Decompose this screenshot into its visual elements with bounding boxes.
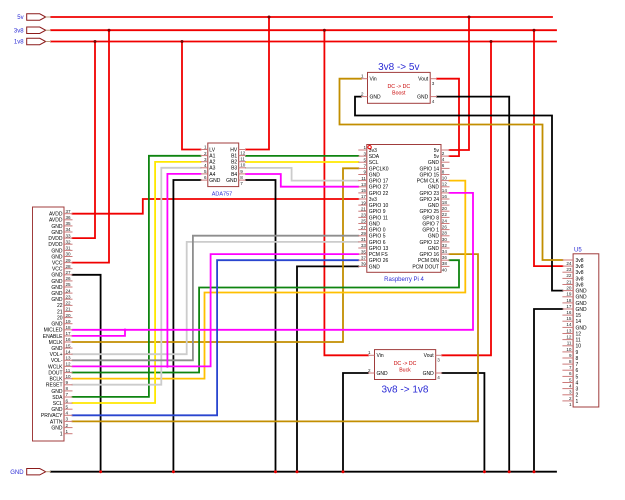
svg-text:GPIO 27: GPIO 27 — [369, 185, 389, 191]
svg-text:PCM FS: PCM FS — [369, 252, 389, 258]
svg-text:GND: GND — [428, 160, 440, 166]
svg-text:4: 4 — [432, 99, 435, 104]
svg-text:34: 34 — [66, 227, 72, 232]
svg-text:23: 23 — [566, 267, 572, 272]
svg-text:GND: GND — [51, 297, 63, 303]
svg-text:RESET: RESET — [46, 383, 63, 389]
svg-text:GND: GND — [51, 279, 63, 285]
svg-text:MCLK: MCLK — [49, 340, 64, 346]
svg-text:1: 1 — [569, 402, 572, 407]
svg-text:SDA: SDA — [52, 395, 63, 401]
svg-text:DC -> DC: DC -> DC — [394, 361, 417, 367]
svg-text:6: 6 — [569, 371, 572, 376]
svg-text:19: 19 — [566, 292, 572, 297]
svg-text:14: 14 — [442, 188, 448, 193]
svg-text:2: 2 — [204, 151, 207, 156]
svg-text:PCM CLK: PCM CLK — [417, 179, 440, 185]
svg-text:22: 22 — [566, 273, 572, 278]
svg-text:GPIO 15: GPIO 15 — [420, 172, 440, 178]
svg-text:GPIO 25: GPIO 25 — [420, 209, 440, 215]
svg-text:SDA: SDA — [369, 154, 380, 160]
svg-text:GND: GND — [423, 371, 435, 377]
svg-text:31: 31 — [66, 246, 72, 251]
svg-text:GND: GND — [369, 172, 381, 178]
svg-text:GND: GND — [428, 246, 440, 252]
svg-text:Vout: Vout — [424, 353, 435, 359]
svg-text:GPIO 10: GPIO 10 — [369, 203, 389, 209]
svg-text:GND: GND — [51, 291, 63, 297]
svg-text:1: 1 — [363, 145, 366, 150]
svg-text:6: 6 — [576, 368, 579, 374]
svg-text:14: 14 — [66, 349, 72, 354]
svg-text:20: 20 — [566, 286, 572, 291]
svg-text:U5: U5 — [574, 248, 582, 254]
svg-text:10: 10 — [66, 374, 72, 379]
svg-text:8: 8 — [576, 356, 579, 362]
svg-text:6: 6 — [442, 163, 445, 168]
svg-text:4: 4 — [204, 163, 207, 168]
svg-text:29: 29 — [66, 258, 72, 263]
svg-text:3v8 -> 1v8: 3v8 -> 1v8 — [382, 384, 429, 395]
svg-text:24: 24 — [66, 288, 72, 293]
svg-text:12: 12 — [240, 151, 246, 156]
svg-text:5v: 5v — [17, 15, 23, 21]
svg-text:GND: GND — [51, 322, 63, 328]
svg-text:11: 11 — [66, 368, 71, 373]
svg-text:5: 5 — [576, 374, 579, 380]
svg-text:Vout: Vout — [418, 77, 429, 83]
svg-text:A3: A3 — [209, 166, 215, 172]
svg-text:14: 14 — [576, 319, 582, 325]
svg-text:GPIO 16: GPIO 16 — [420, 252, 440, 258]
svg-text:3v8 -> 5v: 3v8 -> 5v — [378, 62, 419, 73]
svg-text:18: 18 — [442, 200, 448, 205]
svg-text:3v8: 3v8 — [576, 282, 584, 288]
svg-text:GPCLK0: GPCLK0 — [369, 166, 389, 172]
svg-text:5: 5 — [204, 169, 207, 174]
svg-text:14: 14 — [566, 322, 572, 327]
svg-text:7: 7 — [240, 181, 243, 186]
svg-text:20: 20 — [57, 316, 63, 322]
svg-text:9: 9 — [240, 169, 243, 174]
svg-text:27: 27 — [361, 225, 367, 230]
svg-text:8: 8 — [240, 175, 243, 180]
svg-text:19: 19 — [361, 200, 367, 205]
svg-text:Raspberry Pi 4: Raspberry Pi 4 — [384, 277, 424, 283]
svg-text:GPIO 12: GPIO 12 — [420, 240, 440, 246]
svg-text:VCC: VCC — [52, 261, 63, 267]
svg-text:36: 36 — [66, 215, 72, 220]
svg-text:3v3: 3v3 — [369, 197, 377, 203]
svg-text:11: 11 — [576, 338, 581, 344]
svg-text:25: 25 — [66, 282, 72, 287]
svg-text:17: 17 — [66, 331, 72, 336]
svg-text:3: 3 — [363, 151, 366, 156]
svg-text:GND: GND — [417, 95, 429, 101]
svg-text:13: 13 — [66, 356, 72, 361]
svg-text:1: 1 — [368, 350, 371, 355]
svg-text:6: 6 — [204, 175, 207, 180]
svg-text:ADA757: ADA757 — [212, 192, 233, 198]
svg-text:2: 2 — [569, 396, 572, 401]
svg-text:18: 18 — [66, 325, 72, 330]
svg-text:4: 4 — [576, 380, 579, 386]
svg-text:11: 11 — [361, 176, 366, 181]
svg-text:GND: GND — [576, 307, 588, 313]
svg-text:15: 15 — [566, 316, 572, 321]
svg-text:ENABLE: ENABLE — [43, 334, 63, 340]
svg-text:WCLK: WCLK — [48, 364, 63, 370]
svg-text:VOL+: VOL+ — [50, 352, 63, 358]
svg-text:18: 18 — [566, 298, 572, 303]
svg-text:VOL-: VOL- — [51, 358, 63, 364]
svg-text:GPIO 14: GPIO 14 — [420, 166, 440, 172]
svg-text:33: 33 — [66, 233, 72, 238]
svg-text:GND: GND — [377, 371, 389, 377]
svg-text:Boost: Boost — [392, 90, 406, 96]
svg-text:1: 1 — [576, 399, 579, 405]
svg-text:26: 26 — [66, 276, 72, 281]
svg-text:2: 2 — [361, 91, 364, 96]
svg-text:GPIO 11: GPIO 11 — [369, 215, 388, 221]
svg-text:HV: HV — [230, 147, 238, 153]
svg-text:12: 12 — [442, 182, 448, 187]
svg-text:3v8: 3v8 — [576, 276, 584, 282]
svg-text:GND: GND — [51, 248, 63, 254]
svg-text:ATTN: ATTN — [50, 419, 63, 425]
svg-text:DC -> DC: DC -> DC — [387, 84, 410, 90]
svg-text:6: 6 — [66, 398, 69, 403]
svg-text:1: 1 — [60, 432, 63, 438]
svg-text:GND: GND — [576, 289, 588, 295]
svg-text:17: 17 — [566, 304, 572, 309]
svg-text:DVDD: DVDD — [48, 242, 63, 248]
svg-text:21: 21 — [566, 279, 572, 284]
svg-text:3: 3 — [204, 157, 207, 162]
svg-text:21: 21 — [57, 309, 63, 315]
svg-text:B4: B4 — [231, 172, 237, 178]
svg-text:37: 37 — [66, 209, 72, 214]
svg-text:GND: GND — [428, 185, 440, 191]
svg-text:34: 34 — [442, 249, 448, 254]
svg-text:29: 29 — [361, 231, 367, 236]
svg-text:28: 28 — [442, 231, 448, 236]
svg-text:GND: GND — [51, 273, 63, 279]
svg-text:GND: GND — [576, 301, 588, 307]
svg-text:2: 2 — [66, 423, 69, 428]
svg-text:8: 8 — [442, 169, 445, 174]
svg-text:Vin: Vin — [370, 77, 377, 83]
svg-text:GND: GND — [51, 230, 63, 236]
svg-text:3: 3 — [569, 390, 572, 395]
svg-text:9: 9 — [66, 380, 69, 385]
svg-text:3: 3 — [432, 81, 435, 86]
svg-text:22: 22 — [57, 303, 63, 309]
svg-text:37: 37 — [361, 255, 367, 260]
svg-text:15: 15 — [576, 313, 582, 319]
svg-text:5: 5 — [66, 404, 69, 409]
svg-text:32: 32 — [66, 239, 72, 244]
svg-text:3: 3 — [437, 358, 440, 363]
svg-text:32: 32 — [442, 243, 448, 248]
svg-text:12: 12 — [66, 362, 72, 367]
svg-text:24: 24 — [566, 261, 572, 266]
svg-text:3: 3 — [66, 417, 69, 422]
svg-text:30: 30 — [442, 237, 448, 242]
svg-text:GPIO 8: GPIO 8 — [422, 215, 439, 221]
svg-text:7: 7 — [363, 164, 366, 169]
svg-text:VCC: VCC — [52, 267, 63, 273]
svg-text:GPIO 13: GPIO 13 — [369, 246, 389, 252]
svg-text:7: 7 — [569, 365, 572, 370]
svg-text:7: 7 — [66, 392, 69, 397]
svg-text:PRIVACY: PRIVACY — [41, 413, 63, 419]
svg-text:33: 33 — [361, 243, 367, 248]
svg-text:GPIO 5: GPIO 5 — [369, 234, 386, 240]
svg-text:GND: GND — [369, 221, 381, 227]
svg-text:3v8: 3v8 — [576, 264, 584, 270]
svg-text:GND: GND — [51, 346, 63, 352]
svg-text:28: 28 — [66, 264, 72, 269]
svg-text:SCL: SCL — [53, 401, 63, 407]
svg-text:PCM DOUT: PCM DOUT — [412, 264, 439, 270]
svg-text:11: 11 — [567, 341, 572, 346]
svg-text:A4: A4 — [209, 172, 215, 178]
svg-text:AVDD: AVDD — [49, 218, 63, 224]
svg-text:9: 9 — [576, 350, 579, 356]
svg-text:5v: 5v — [434, 154, 440, 160]
svg-text:GND: GND — [51, 285, 63, 291]
svg-text:GPIO 17: GPIO 17 — [369, 179, 389, 185]
svg-text:17: 17 — [361, 194, 367, 199]
svg-text:4: 4 — [66, 411, 69, 416]
svg-text:1: 1 — [204, 145, 207, 150]
svg-text:22: 22 — [442, 212, 448, 217]
svg-text:3v8: 3v8 — [576, 270, 584, 276]
svg-text:DOUT: DOUT — [48, 371, 62, 377]
svg-text:5v: 5v — [434, 148, 440, 154]
svg-text:7: 7 — [576, 362, 579, 368]
svg-text:30: 30 — [66, 252, 72, 257]
svg-text:1v8: 1v8 — [14, 40, 24, 46]
svg-text:2: 2 — [368, 368, 371, 373]
svg-text:LV: LV — [209, 147, 215, 153]
svg-text:2: 2 — [576, 393, 579, 399]
svg-text:A2: A2 — [209, 160, 215, 166]
svg-text:16: 16 — [442, 194, 448, 199]
svg-text:SCL: SCL — [369, 160, 379, 166]
svg-text:GND: GND — [428, 203, 440, 209]
svg-text:10: 10 — [442, 176, 448, 181]
svg-text:3v8: 3v8 — [576, 258, 584, 264]
svg-text:1: 1 — [361, 74, 364, 79]
svg-text:31: 31 — [361, 237, 367, 242]
svg-text:GND: GND — [51, 407, 63, 413]
svg-text:15: 15 — [361, 188, 367, 193]
svg-text:24: 24 — [442, 218, 448, 223]
svg-text:GPIO 1: GPIO 1 — [422, 228, 439, 234]
svg-text:3v8: 3v8 — [14, 28, 24, 34]
svg-text:22: 22 — [66, 301, 72, 306]
svg-text:GND: GND — [51, 224, 63, 230]
svg-text:15: 15 — [66, 343, 72, 348]
svg-text:23: 23 — [361, 213, 367, 218]
svg-text:8: 8 — [569, 359, 572, 364]
svg-text:11: 11 — [240, 157, 245, 162]
svg-text:GPIO 0: GPIO 0 — [369, 228, 386, 234]
svg-text:26: 26 — [442, 225, 448, 230]
svg-text:GND: GND — [51, 389, 63, 395]
svg-text:1: 1 — [66, 429, 69, 434]
svg-text:20: 20 — [66, 313, 72, 318]
svg-text:39: 39 — [361, 262, 367, 267]
svg-text:40: 40 — [442, 267, 448, 272]
svg-text:4: 4 — [437, 375, 440, 380]
svg-text:13: 13 — [361, 182, 367, 187]
svg-text:B3: B3 — [231, 166, 237, 172]
svg-text:35: 35 — [361, 249, 367, 254]
svg-text:9: 9 — [363, 170, 366, 175]
svg-text:GND: GND — [10, 470, 24, 476]
svg-text:GPIO 23: GPIO 23 — [420, 191, 440, 197]
svg-text:GND: GND — [576, 295, 588, 301]
svg-text:GPIO 26: GPIO 26 — [369, 258, 389, 264]
svg-text:GPIO 9: GPIO 9 — [369, 209, 386, 215]
svg-text:5: 5 — [363, 157, 366, 162]
svg-text:GPIO 24: GPIO 24 — [420, 197, 440, 203]
svg-text:10: 10 — [576, 344, 582, 350]
svg-text:GPIO 7: GPIO 7 — [422, 221, 439, 227]
svg-text:AVDD: AVDD — [49, 212, 63, 218]
svg-text:10: 10 — [566, 347, 572, 352]
svg-text:10: 10 — [240, 163, 246, 168]
svg-text:4: 4 — [442, 157, 445, 162]
svg-text:GND: GND — [51, 254, 63, 260]
svg-text:35: 35 — [66, 221, 72, 226]
svg-text:19: 19 — [66, 319, 72, 324]
svg-text:B2: B2 — [231, 160, 237, 166]
svg-text:21: 21 — [361, 206, 367, 211]
svg-text:9: 9 — [569, 353, 572, 358]
svg-text:GND: GND — [370, 95, 382, 101]
svg-text:16: 16 — [66, 337, 72, 342]
svg-text:GND: GND — [226, 178, 238, 184]
svg-text:DVDD: DVDD — [48, 236, 63, 242]
svg-text:PCM DIN: PCM DIN — [418, 258, 440, 264]
svg-text:GND: GND — [51, 425, 63, 431]
svg-text:12: 12 — [566, 335, 572, 340]
svg-text:GND: GND — [576, 325, 588, 331]
svg-text:21: 21 — [66, 307, 72, 312]
svg-text:16: 16 — [566, 310, 572, 315]
svg-text:Buck: Buck — [399, 367, 411, 373]
svg-text:13: 13 — [566, 328, 572, 333]
svg-text:25: 25 — [361, 219, 367, 224]
svg-text:Vin: Vin — [377, 353, 384, 359]
svg-text:20: 20 — [442, 206, 448, 211]
svg-text:23: 23 — [66, 294, 72, 299]
svg-text:GPIO 22: GPIO 22 — [369, 191, 389, 197]
svg-text:GND: GND — [369, 264, 381, 270]
svg-text:5: 5 — [569, 377, 572, 382]
svg-text:8: 8 — [66, 386, 69, 391]
svg-text:BCLK: BCLK — [49, 377, 63, 383]
svg-text:12: 12 — [576, 331, 582, 337]
svg-text:38: 38 — [442, 261, 448, 266]
svg-text:2: 2 — [442, 151, 445, 156]
svg-text:GND: GND — [428, 234, 440, 240]
svg-text:A1: A1 — [209, 154, 215, 160]
svg-text:MICLED: MICLED — [44, 328, 63, 334]
svg-text:36: 36 — [442, 255, 448, 260]
svg-text:4: 4 — [569, 384, 572, 389]
svg-text:GPIO 6: GPIO 6 — [369, 240, 386, 246]
svg-text:3: 3 — [576, 387, 579, 393]
svg-text:GND: GND — [209, 178, 221, 184]
svg-text:27: 27 — [66, 270, 72, 275]
svg-text:B1: B1 — [231, 154, 237, 160]
